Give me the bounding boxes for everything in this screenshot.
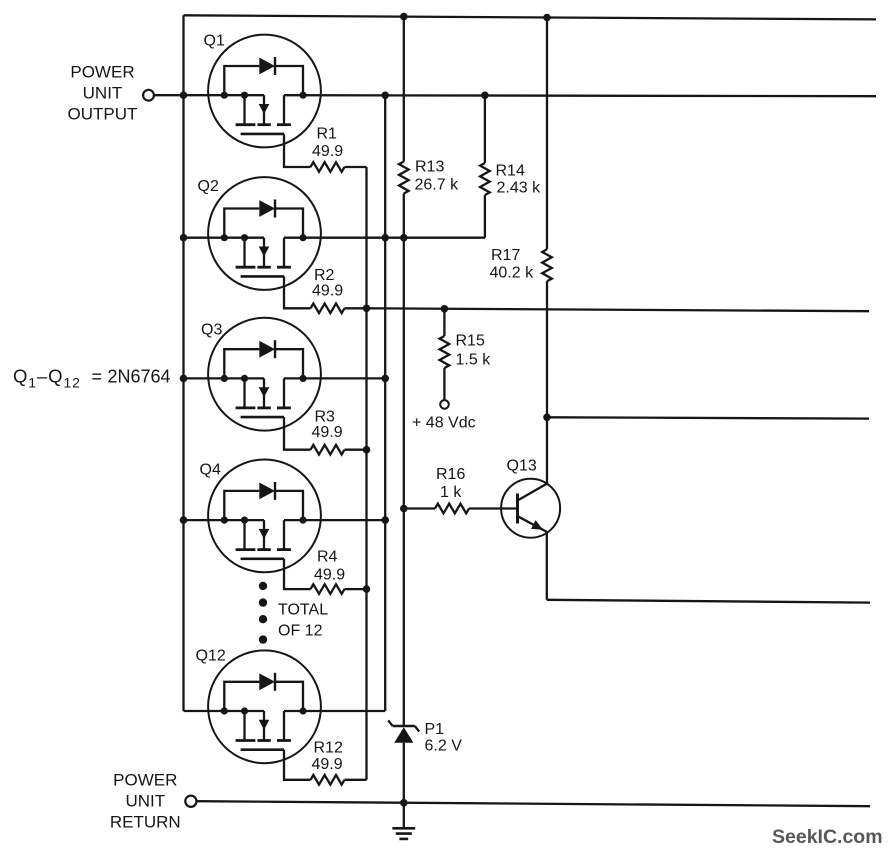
resistor R16	[435, 504, 469, 514]
wire R14 top lead	[484, 95, 486, 163]
svg-text:Q13: Q13	[507, 458, 537, 475]
resistor R13	[399, 162, 409, 194]
resistor R3	[311, 445, 345, 455]
wire R2 node line to right edge	[367, 308, 870, 311]
svg-text:R17: R17	[491, 247, 520, 264]
junction dots	[180, 91, 188, 99]
svg-text:Q4: Q4	[200, 462, 221, 479]
node continuation dots TOTAL OF 12	[259, 582, 267, 590]
wire R14 bottom lead	[484, 195, 486, 238]
wire R16 to Q13 base	[469, 507, 518, 509]
resistor R15	[440, 336, 450, 368]
wire V5 to Q13 collector	[546, 281, 548, 484]
wire Q13 emitter line to right edge	[547, 600, 870, 603]
svg-text:R13: R13	[415, 159, 444, 176]
terminal POWER UNIT OUTPUT	[143, 90, 154, 101]
svg-text:26.7 k: 26.7 k	[415, 177, 460, 194]
wire mid right line y417	[547, 417, 869, 418]
svg-text:OUTPUT: OUTPUT	[68, 105, 138, 124]
svg-text:+ 48 Vdc: + 48 Vdc	[412, 415, 476, 432]
svg-text:49.9: 49.9	[314, 567, 345, 584]
svg-text:R16: R16	[436, 466, 465, 483]
svg-text:49.9: 49.9	[312, 283, 343, 300]
svg-text:1.5 k: 1.5 k	[456, 352, 492, 369]
svg-text:TOTAL: TOTAL	[278, 602, 328, 619]
svg-text:Q12: Q12	[196, 648, 226, 665]
transistor Q1	[154, 35, 876, 167]
wire V4 upper (through R13)	[403, 17, 405, 162]
svg-text:2.43 k: 2.43 k	[497, 180, 542, 197]
svg-text:Q2: Q2	[198, 178, 219, 195]
svg-text:SeekIC.com: SeekIC.com	[772, 826, 883, 848]
resistor R1	[311, 162, 345, 172]
svg-text:R2: R2	[314, 267, 335, 284]
svg-text:R15: R15	[456, 333, 485, 350]
svg-text:POWER: POWER	[113, 771, 177, 790]
transistor Q13	[501, 479, 560, 600]
svg-text:R14: R14	[496, 163, 525, 180]
transistor Q3	[184, 318, 386, 450]
svg-text:49.9: 49.9	[312, 424, 343, 441]
svg-text:40.2 k: 40.2 k	[490, 265, 535, 282]
svg-text:2N6764: 2N6764	[108, 367, 171, 387]
svg-text:6.2 V: 6.2 V	[425, 738, 463, 755]
resistor R4	[311, 584, 345, 594]
svg-text:49.9: 49.9	[312, 756, 343, 773]
svg-text:Q1: Q1	[204, 33, 225, 50]
ground	[392, 803, 415, 839]
transistor Q12	[184, 650, 386, 779]
svg-text:Q3: Q3	[201, 322, 222, 339]
svg-text:R1: R1	[317, 126, 338, 143]
svg-text:OF 12: OF 12	[278, 623, 323, 640]
wire V5 upper	[546, 18, 548, 250]
transistor Q4	[184, 460, 386, 590]
resistor R12	[311, 775, 345, 785]
wire R15 bottom lead	[443, 368, 445, 400]
wire V4 lower below zener	[403, 743, 405, 803]
terminal POWER UNIT RETURN	[185, 796, 196, 807]
terminal +48Vdc	[440, 400, 449, 409]
wire power unit return line	[197, 801, 870, 806]
wire V3	[384, 95, 386, 711]
wire left bus V1	[182, 15, 184, 711]
svg-text:UNIT: UNIT	[125, 792, 165, 811]
wire top bus	[184, 15, 877, 19]
svg-text:POWER: POWER	[70, 63, 134, 82]
svg-text:=: =	[92, 367, 103, 387]
wire R15 top lead	[443, 309, 445, 336]
svg-text:R12: R12	[314, 740, 343, 757]
resistor R14	[480, 163, 490, 195]
wire gate bus V2	[365, 167, 367, 780]
resistor R2	[311, 304, 345, 314]
transistor Q2	[184, 177, 486, 308]
zener diode P1	[388, 720, 419, 742]
wire V4 middle	[403, 194, 405, 727]
svg-text:1 k: 1 k	[440, 484, 462, 501]
svg-text:R3: R3	[315, 409, 336, 426]
wire R16 left lead	[404, 507, 435, 509]
svg-text:R4: R4	[317, 549, 338, 566]
svg-text:49.9: 49.9	[312, 143, 343, 160]
resistor R17	[542, 249, 552, 281]
svg-text:RETURN: RETURN	[110, 813, 181, 832]
svg-text:P1: P1	[425, 721, 445, 738]
svg-text:UNIT: UNIT	[83, 84, 123, 103]
